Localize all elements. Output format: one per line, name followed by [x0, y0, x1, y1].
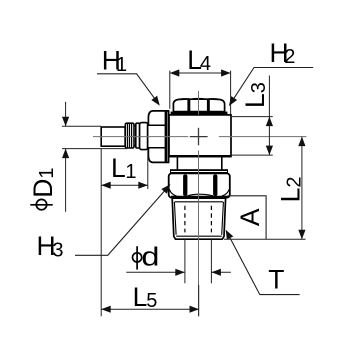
svg-text:d: d	[141, 243, 159, 272]
thread T tapered section	[172, 198, 225, 239]
plug cylinder	[101, 127, 125, 146]
thread root dashed lines	[185, 206, 212, 233]
barb ring block	[125, 123, 134, 148]
svg-text:3: 3	[52, 239, 63, 261]
dimension phid	[126, 240, 231, 284]
bottom hex H3	[169, 173, 230, 197]
barb neck	[134, 126, 136, 146]
svg-text:5: 5	[146, 290, 157, 312]
svg-text:A: A	[235, 208, 265, 226]
dimension L2	[224, 137, 306, 240]
center cross	[190, 128, 208, 146]
main body block	[169, 115, 231, 157]
bottom collar	[177, 157, 221, 170]
vertical centerline	[198, 91, 200, 316]
dimension A bracket	[228, 196, 267, 240]
dimension L3	[232, 76, 273, 156]
dimension L5	[101, 149, 199, 317]
dimension L4	[170, 71, 231, 115]
barb ring 2	[136, 123, 140, 148]
svg-text:L: L	[133, 282, 148, 312]
thread inner lines	[174, 202, 223, 236]
horizontal centerline	[93, 136, 307, 138]
bottom washer band	[170, 169, 228, 174]
dimension phiD1	[62, 102, 127, 212]
dimension L1	[101, 151, 148, 189]
left hex nut H1	[148, 111, 169, 162]
top hex washer	[171, 112, 228, 115]
svg-text:T: T	[268, 265, 284, 295]
top hex H2	[173, 99, 224, 112]
top hex face separators	[187, 100, 190, 112]
svg-text:4: 4	[200, 53, 211, 75]
svg-text:L: L	[111, 153, 126, 183]
svg-text:1: 1	[116, 54, 127, 76]
svg-text:2: 2	[284, 46, 295, 68]
sleeve	[140, 123, 148, 150]
svg-text:1: 1	[125, 161, 136, 183]
